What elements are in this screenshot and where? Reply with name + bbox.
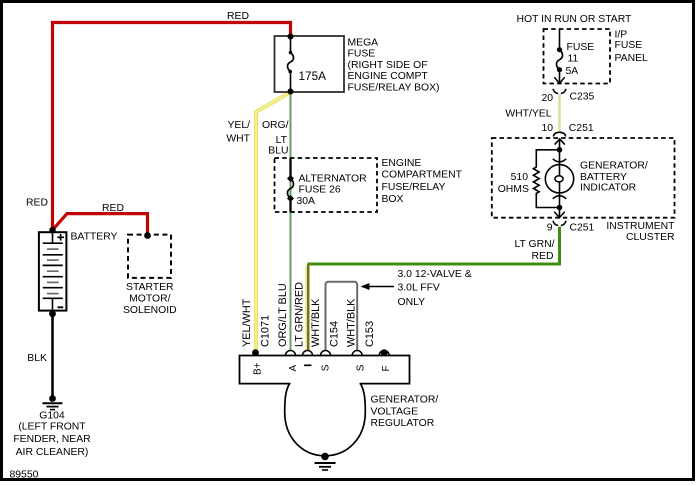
svg-text:C154: C154 <box>328 321 340 347</box>
svg-text:C1071: C1071 <box>260 315 272 347</box>
svg-text:REGULATOR: REGULATOR <box>371 418 435 429</box>
svg-text:RED: RED <box>532 251 554 262</box>
svg-text:ENGINE: ENGINE <box>382 158 422 169</box>
svg-text:BATTERY: BATTERY <box>71 232 118 243</box>
svg-text:3.0L FFV: 3.0L FFV <box>398 283 440 294</box>
svg-text:ORG/LT BLU: ORG/LT BLU <box>277 283 289 347</box>
svg-text:C251: C251 <box>569 123 594 134</box>
svg-text:INSTRUMENT: INSTRUMENT <box>606 221 675 232</box>
svg-text:I/P: I/P <box>615 29 628 40</box>
svg-text:WHT: WHT <box>226 133 250 144</box>
svg-text:MEGA: MEGA <box>348 38 379 49</box>
svg-text:510: 510 <box>511 172 529 183</box>
svg-text:MOTOR/: MOTOR/ <box>129 294 170 305</box>
svg-text:5A: 5A <box>566 66 579 77</box>
svg-text:INDICATOR: INDICATOR <box>580 183 637 194</box>
svg-text:S: S <box>320 364 331 371</box>
svg-text:FUSE: FUSE <box>615 40 643 51</box>
svg-text:WHT/BLK: WHT/BLK <box>310 298 322 347</box>
svg-text:LT GRN/: LT GRN/ <box>514 239 554 250</box>
svg-text:FUSE/RELAY: FUSE/RELAY <box>382 182 446 193</box>
svg-text:LT: LT <box>276 135 288 146</box>
svg-text:BATTERY: BATTERY <box>580 172 627 183</box>
svg-text:S: S <box>355 364 366 371</box>
svg-text:CLUSTER: CLUSTER <box>626 232 675 243</box>
svg-text:WHT/YEL: WHT/YEL <box>505 109 551 120</box>
svg-text:3.0 12-VALVE &: 3.0 12-VALVE & <box>398 269 472 280</box>
svg-text:BLK: BLK <box>27 353 47 364</box>
svg-text:FUSE: FUSE <box>348 49 376 60</box>
svg-text:ONLY: ONLY <box>398 297 426 308</box>
svg-text:BLU: BLU <box>268 146 288 157</box>
svg-text:STARTER: STARTER <box>126 282 174 293</box>
svg-text:BOX: BOX <box>382 194 404 205</box>
svg-text:C235: C235 <box>570 91 595 102</box>
svg-text:ORG/: ORG/ <box>262 120 289 131</box>
svg-text:YEL/WHT: YEL/WHT <box>241 298 253 347</box>
svg-text:9: 9 <box>547 222 553 233</box>
svg-text:COMPARTMENT: COMPARTMENT <box>382 170 463 181</box>
svg-text:FUSE: FUSE <box>567 42 595 53</box>
svg-text:VOLTAGE: VOLTAGE <box>371 407 419 418</box>
svg-text:B+: B+ <box>253 362 264 375</box>
svg-text:GENERATOR/: GENERATOR/ <box>371 395 439 406</box>
svg-text:AIR CLEANER): AIR CLEANER) <box>16 447 89 458</box>
svg-text:C251: C251 <box>570 222 595 233</box>
svg-text:A: A <box>288 365 299 372</box>
svg-text:HOT IN RUN OR START: HOT IN RUN OR START <box>517 14 633 25</box>
svg-text:SOLENOID: SOLENOID <box>123 305 177 316</box>
svg-text:YEL/: YEL/ <box>227 120 250 131</box>
svg-text:89550: 89550 <box>10 469 39 480</box>
svg-text:175A: 175A <box>299 69 327 83</box>
svg-text:FUSE/RELAY BOX): FUSE/RELAY BOX) <box>348 82 440 93</box>
svg-text:11: 11 <box>568 53 579 64</box>
svg-text:20: 20 <box>541 93 553 104</box>
svg-text:RED: RED <box>227 11 249 22</box>
svg-text:F: F <box>381 365 392 371</box>
svg-text:RED: RED <box>26 198 48 209</box>
svg-text:(LEFT FRONT: (LEFT FRONT <box>18 421 86 432</box>
svg-text:OHMS: OHMS <box>498 184 529 195</box>
svg-text:G104: G104 <box>39 411 65 422</box>
svg-text:ENGINE COMPT: ENGINE COMPT <box>348 71 429 82</box>
svg-text:FENDER, NEAR: FENDER, NEAR <box>13 434 91 445</box>
svg-text:30A: 30A <box>297 196 316 207</box>
svg-text:RED: RED <box>102 203 124 214</box>
svg-text:PANEL: PANEL <box>615 53 649 64</box>
svg-text:LT GRN/RED: LT GRN/RED <box>293 282 305 347</box>
svg-text:10: 10 <box>541 123 553 134</box>
svg-text:GENERATOR/: GENERATOR/ <box>580 161 648 172</box>
svg-text:C153: C153 <box>364 321 376 347</box>
svg-text:(RIGHT SIDE OF: (RIGHT SIDE OF <box>348 60 428 71</box>
svg-text:WHT/BLK: WHT/BLK <box>346 298 358 347</box>
svg-text:ALTERNATOR: ALTERNATOR <box>299 173 368 184</box>
svg-text:FUSE 26: FUSE 26 <box>299 185 341 196</box>
